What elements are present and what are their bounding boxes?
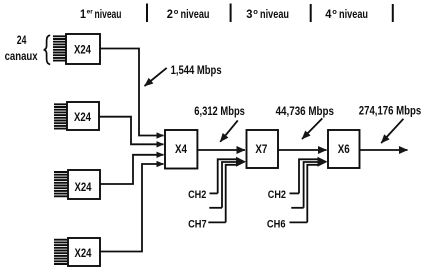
svg-text:24: 24: [17, 33, 27, 47]
svg-text:CH6: CH6: [267, 219, 286, 231]
svg-text:CH2: CH2: [188, 189, 206, 201]
middle feed wire (X7): [209, 207, 222, 209]
header separator 4: [392, 4, 394, 22]
wire: X24 #2 output to X4 input 2: [99, 117, 164, 145]
svg-text:X24: X24: [75, 248, 92, 260]
svg-text:X24: X24: [74, 45, 91, 57]
wire: X24 #4 output to X4 input 4: [100, 164, 164, 252]
svg-text:X7: X7: [255, 144, 267, 156]
multiplexer box X24 #1: [66, 34, 100, 64]
svg-text:44,736 Mbps: 44,736 Mbps: [276, 104, 335, 118]
bus arrowhead into X6: [318, 157, 328, 167]
multiplexer box X7: [247, 130, 279, 168]
svg-text:CH2: CH2: [268, 189, 286, 201]
svg-text:X4: X4: [175, 144, 188, 156]
header separator 2: [230, 4, 232, 23]
svg-text:2: 2: [167, 7, 173, 21]
svg-text:niveau: niveau: [95, 7, 122, 21]
pointer arrow for 44,736 Mbps: [302, 118, 322, 139]
CH6 feed wire (X6): [290, 221, 308, 223]
brace for 24 canaux: [44, 35, 51, 64]
CH7 feed wire (X7): [208, 221, 225, 223]
svg-text:X6: X6: [338, 144, 350, 156]
pointer arrow for 274,176 Mbps: [381, 119, 403, 143]
svg-text:X24: X24: [75, 182, 92, 194]
header separator 1: [146, 4, 148, 23]
wire: X24 #3 output to X4 input 3: [100, 155, 164, 184]
svg-text:o: o: [253, 7, 258, 16]
svg-text:3: 3: [246, 7, 252, 21]
header separator 3: [310, 4, 312, 22]
svg-text:o: o: [174, 7, 179, 16]
svg-text:X24: X24: [74, 112, 91, 124]
bus wire CH7 into X7: [226, 165, 236, 223]
multiplexer box X24 #4: [68, 238, 100, 266]
svg-text:CH7: CH7: [188, 219, 207, 231]
bus wire CH2 into X7: [218, 159, 236, 193]
svg-text:o: o: [332, 7, 337, 16]
multiplexer box X6: [328, 130, 360, 168]
middle feed wire (X6): [291, 207, 303, 209]
pointer arrow for 1,544 Mbps: [145, 68, 167, 86]
CH2 feed wire (X6): [290, 192, 300, 194]
bus wire middle into X7: [222, 162, 236, 208]
multiplexer box X4: [165, 130, 197, 169]
svg-text:6,312 Mbps: 6,312 Mbps: [194, 104, 245, 118]
channel comb 3: [54, 172, 67, 196]
svg-text:4: 4: [325, 7, 331, 21]
channel comb 4: [54, 240, 67, 264]
multiplexer box X24 #2: [67, 102, 99, 130]
svg-text:er: er: [87, 8, 94, 15]
bus wire middle into X6: [304, 162, 318, 208]
svg-text:274,176 Mbps: 274,176 Mbps: [359, 104, 422, 118]
wire: X4 output to X7: [197, 149, 245, 151]
svg-text:niveau: niveau: [181, 7, 210, 21]
wire: X7 output to X6: [278, 149, 327, 151]
wire: X24 #1 output to X4 input 1: [100, 49, 164, 136]
svg-text:1: 1: [80, 7, 86, 21]
wire: X6 output arrow: [360, 149, 408, 151]
bus arrowhead into X7: [236, 157, 246, 167]
pointer arrow for 6,312 Mbps: [220, 120, 238, 141]
bus wire CH2 into X6: [299, 159, 318, 193]
CH2 feed wire (X7): [210, 192, 218, 194]
channel comb 1: [53, 36, 66, 60]
multiplexer box X24 #3: [68, 170, 100, 199]
svg-text:niveau: niveau: [339, 7, 368, 21]
svg-text:canaux: canaux: [5, 49, 38, 63]
channel comb 2: [54, 104, 67, 128]
svg-text:1,544 Mbps: 1,544 Mbps: [171, 63, 222, 77]
svg-text:niveau: niveau: [260, 7, 289, 21]
bus wire CH6 into X6: [307, 165, 317, 223]
